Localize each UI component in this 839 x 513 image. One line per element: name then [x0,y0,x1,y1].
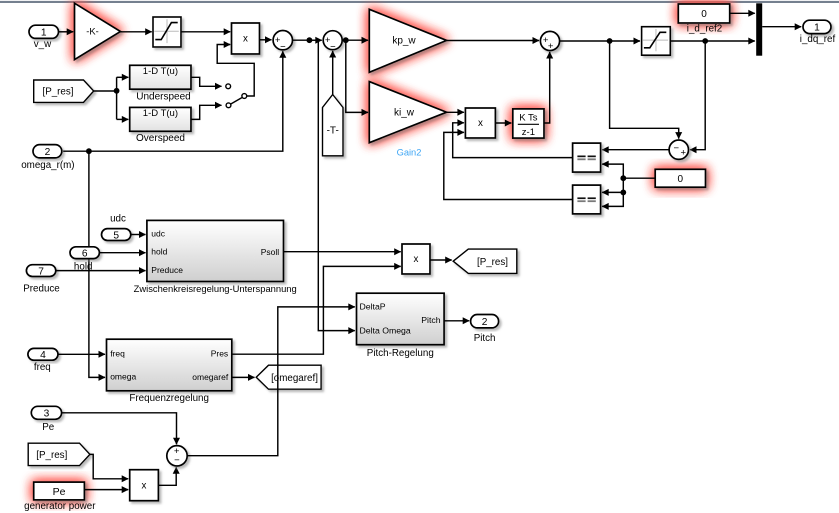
subsystem Pitch-Regelung [357,293,445,345]
wire K Ts to sum3 bottom [544,52,550,123]
wire product3 to goto P_res [430,259,452,261]
input port 6 hold [70,247,99,272]
wire Pres to product4 [232,266,401,354]
svg-text:-K-: -K- [86,27,98,37]
input port 1 v_w [29,25,59,50]
svg-text:ki_w: ki_w [394,108,415,119]
label Zwischenkreisregelung-Unterspannung [134,283,297,294]
svg-text:Pe: Pe [42,422,55,433]
constant Pe generator power (highlighted) [34,482,85,500]
lookup table Overspeed [130,107,191,131]
svg-text:Underspeed: Underspeed [136,91,190,102]
wire omega_r to sum1 bottom [63,51,283,154]
wire port1 to gain -K- [59,31,73,33]
product block 4 [130,470,159,501]
gain ki_w (highlighted) [369,82,446,143]
svg-text:−: − [280,42,286,53]
svg-text:Overspeed: Overspeed [136,133,185,144]
svg-text:7: 7 [38,266,44,277]
wire Psoll to product4 [284,251,401,253]
svg-text:+: + [548,41,554,52]
window top border bar [0,1,839,3]
wire port6 to subsystem [100,252,146,254]
svg-text:1: 1 [814,23,820,34]
svg-text:omega_r(m): omega_r(m) [21,160,74,171]
wire to Underspeed [117,76,129,78]
svg-text:Gain2: Gain2 [397,147,422,157]
svg-text:[P_res]: [P_res] [42,87,73,98]
svg-text:DeltaP: DeltaP [360,301,386,311]
wire kp_w to sum3 [447,40,539,42]
svg-text:−: − [330,42,336,53]
input port 4 freq [28,348,58,373]
svg-text:omegaref: omegaref [192,372,229,382]
wire switch to product1 [217,45,254,97]
wire Overspeed to switch [191,105,222,119]
svg-text:kp_w: kp_w [392,36,416,47]
svg-text:K Ts: K Ts [519,113,538,124]
wire constant0-2 to junction [623,177,655,179]
product block 2 [465,108,495,138]
svg-text:udc: udc [151,229,165,239]
svg-text:generator power: generator power [24,501,96,512]
subsystem Frequenzregelung [107,339,232,391]
sum block 2 [323,31,342,53]
wire branch to ki_w [346,40,368,112]
gain kp_w (highlighted) [369,9,446,72]
svg-text:4: 4 [40,350,46,361]
svg-text:udc: udc [110,214,126,225]
from tag [P_res] 2 [28,443,90,465]
wire junction to equal2 input1 [602,178,626,195]
label Frequenzregelung [129,393,209,404]
red highlight glow layer [75,3,121,59]
wire ki_w to product2 [447,111,464,113]
svg-text:Preduce: Preduce [23,284,60,295]
svg-text:i_d_ref2: i_d_ref2 [687,23,722,34]
sum block 4 [669,140,688,159]
svg-text:2: 2 [482,317,488,328]
wire Underspeed to switch [191,77,222,86]
svg-text:i_dq_ref: i_dq_ref [800,34,836,45]
wire equal2 to product2 [444,132,573,199]
svg-text:5: 5 [113,230,119,241]
svg-text:0: 0 [701,9,707,20]
output port 1 i_dq_ref [800,20,836,45]
wire omegaref to goto tag [232,376,255,378]
relational operator equal2 [573,185,601,214]
svg-text:3: 3 [44,409,50,420]
svg-text:omega: omega [110,372,136,382]
label udc above port 5 [110,214,126,225]
wire product2 to discrete integrator [495,122,511,124]
svg-text:x: x [142,481,147,492]
wire junction to equal1 input [602,164,626,181]
svg-text:Frequenzregelung: Frequenzregelung [129,393,209,404]
manual switch [226,84,247,108]
discrete integrator K Ts/z-1 (highlighted) [513,109,544,138]
svg-text:1: 1 [41,28,47,39]
goto tag [omegaref] [256,365,321,389]
svg-text:x: x [478,118,483,129]
sum block 5 [167,446,187,467]
sum block 3 [540,31,559,52]
wire P_res2 to product5 [90,454,128,478]
svg-text:2: 2 [45,147,51,158]
constant 0 (highlighted) [655,169,705,187]
wire product1 to sum1 [260,39,272,41]
wire port7 to subsystem [56,270,145,272]
svg-text:v_w: v_w [34,39,52,50]
saturation block 2 [642,27,671,56]
gain -K- (highlighted) [75,3,121,59]
input port 2 omega_r(m) [21,145,74,171]
svg-text:Preduce: Preduce [151,265,183,275]
label generator power [24,501,96,512]
wire mux to output port [762,26,801,28]
wire product5 to sum5 bottom [159,467,177,485]
svg-text:Pitch-Regelung: Pitch-Regelung [367,348,434,359]
lookup table Underspeed [130,65,191,89]
goto tag [P_res] [453,249,517,273]
annotation Gain2 [397,147,422,157]
svg-text:Pe: Pe [53,486,66,498]
svg-text:−: − [674,143,680,154]
mux [756,3,762,55]
relational operator equal1 [573,143,601,172]
svg-text:freq: freq [34,362,51,373]
wire branch to sum4 top [610,41,679,139]
input port 3 Pe [31,406,61,433]
label Overspeed [136,133,185,144]
svg-text:freq: freq [110,349,125,359]
wire P_res to lookup junction [94,77,120,119]
svg-text:x: x [243,34,248,45]
input port 7 Preduce [23,265,60,295]
svg-text:Pitch: Pitch [421,315,440,325]
output port 2 Pitch [471,315,499,345]
wire sum1 to sum2 [293,37,322,43]
svg-text:x: x [414,254,419,265]
saturation block 1 [153,17,181,47]
svg-text:Zwischenkreisregelung-Unterspa: Zwischenkreisregelung-Unterspannung [134,283,297,294]
label i_d_ref2 [687,23,722,34]
wire junction to equal2 input2 [602,192,623,206]
wire sum4 to equal1 [602,149,669,151]
svg-text:−: − [174,455,180,466]
label Underspeed [136,91,190,102]
wire Pe to product5 [85,489,129,491]
svg-text:6: 6 [82,248,88,259]
product block 3 [402,244,430,274]
svg-text:0: 0 [678,174,684,185]
wire port5 to subsystem [131,234,145,236]
svg-text:Pitch: Pitch [474,333,496,344]
svg-text:+: + [681,148,687,159]
svg-text:z-1: z-1 [522,127,535,138]
svg-text:hold: hold [151,247,167,257]
sum block 1 [273,31,292,53]
svg-text:Delta Omega: Delta Omega [360,325,411,335]
svg-text:Pres: Pres [211,349,228,359]
wire port4 to Frequenzregelung [58,353,105,355]
wire sum3 to saturation2 [560,38,640,44]
label Pitch-Regelung [367,348,434,359]
wire branch to sum4 right [690,41,705,150]
svg-text:[P_res]: [P_res] [477,257,508,268]
constant 0 i_d_ref2 (highlighted) [678,4,729,23]
wire gain to saturation1 [121,31,152,33]
svg-text:1-D T(u): 1-D T(u) [143,66,178,77]
wire equal1 to product2 [453,123,573,158]
wire -T- to sum2 [332,51,334,95]
tag -T- [323,95,344,156]
svg-text:1-D T(u): 1-D T(u) [143,108,178,119]
svg-text:[P_res]: [P_res] [36,450,67,461]
wire Pitch to port2 [444,320,469,322]
wire to Overspeed [117,118,129,120]
from tag [P_res] [34,80,94,102]
wire port3 to sum5 top [62,413,177,444]
wire constant0 to mux [730,12,755,14]
product block 1 [232,23,260,54]
wire sum2 to kp_w [342,37,368,43]
wire branch to Delta Omega [309,40,354,330]
wire sum5 to DeltaP [187,307,354,456]
input port 5 udc [102,229,131,242]
subsystem Zwischenkreisregelung-Unterspannung [147,220,284,281]
wire omega_r branch to Frequenzregelung [89,151,105,377]
svg-text:Psoll: Psoll [261,247,280,257]
wire saturation1 to product1 [181,31,230,33]
svg-text:-T-: -T- [327,126,339,137]
wire saturation2 to mux [670,38,755,44]
